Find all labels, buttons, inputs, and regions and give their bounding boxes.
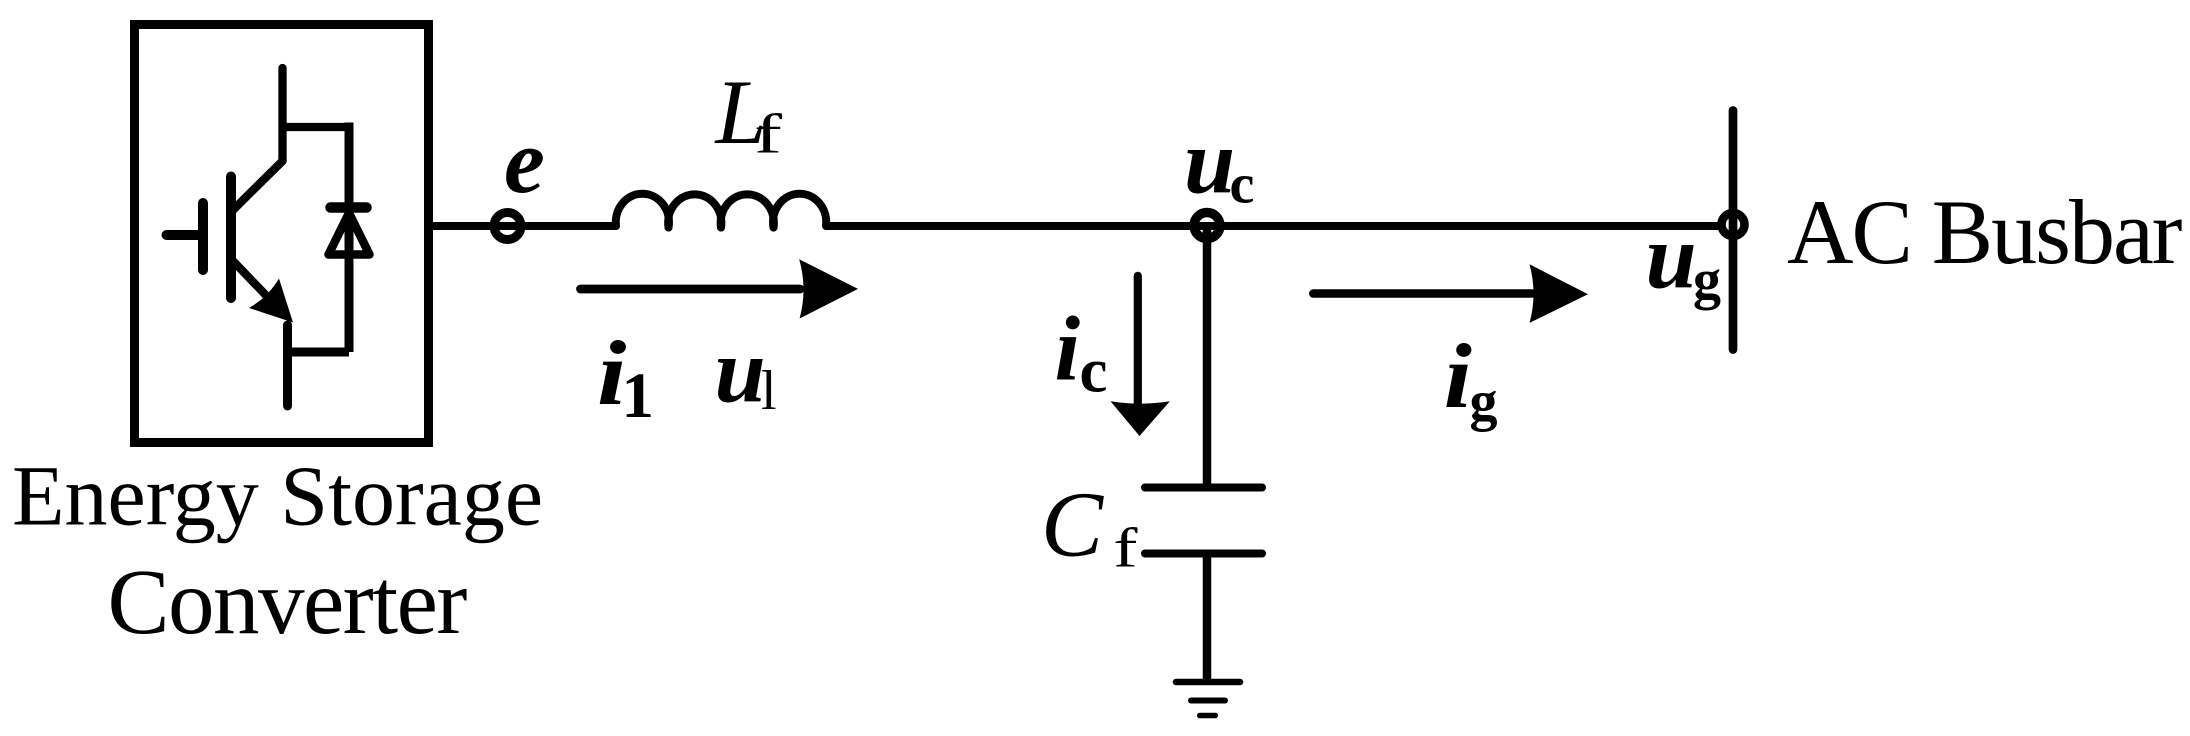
- svg-text:C: C: [1041, 474, 1104, 577]
- svg-text:i: i: [1055, 298, 1081, 400]
- svg-text:Energy Storage: Energy Storage: [12, 448, 543, 544]
- svg-text:u: u: [715, 320, 766, 422]
- svg-text:g: g: [1470, 371, 1498, 433]
- svg-text:u: u: [1646, 206, 1697, 308]
- svg-text:f: f: [754, 103, 782, 165]
- svg-text:e: e: [504, 110, 545, 212]
- svg-text:f: f: [1113, 517, 1138, 579]
- svg-text:c: c: [1080, 336, 1108, 406]
- svg-text:g: g: [1693, 249, 1721, 311]
- svg-text:c: c: [1230, 154, 1255, 216]
- svg-text:Converter: Converter: [108, 551, 468, 654]
- svg-text:l: l: [761, 360, 777, 422]
- svg-text:u: u: [1184, 111, 1235, 213]
- svg-text:AC Busbar: AC Busbar: [1787, 181, 2182, 283]
- svg-text:i: i: [1444, 325, 1472, 427]
- svg-text:1: 1: [622, 360, 655, 432]
